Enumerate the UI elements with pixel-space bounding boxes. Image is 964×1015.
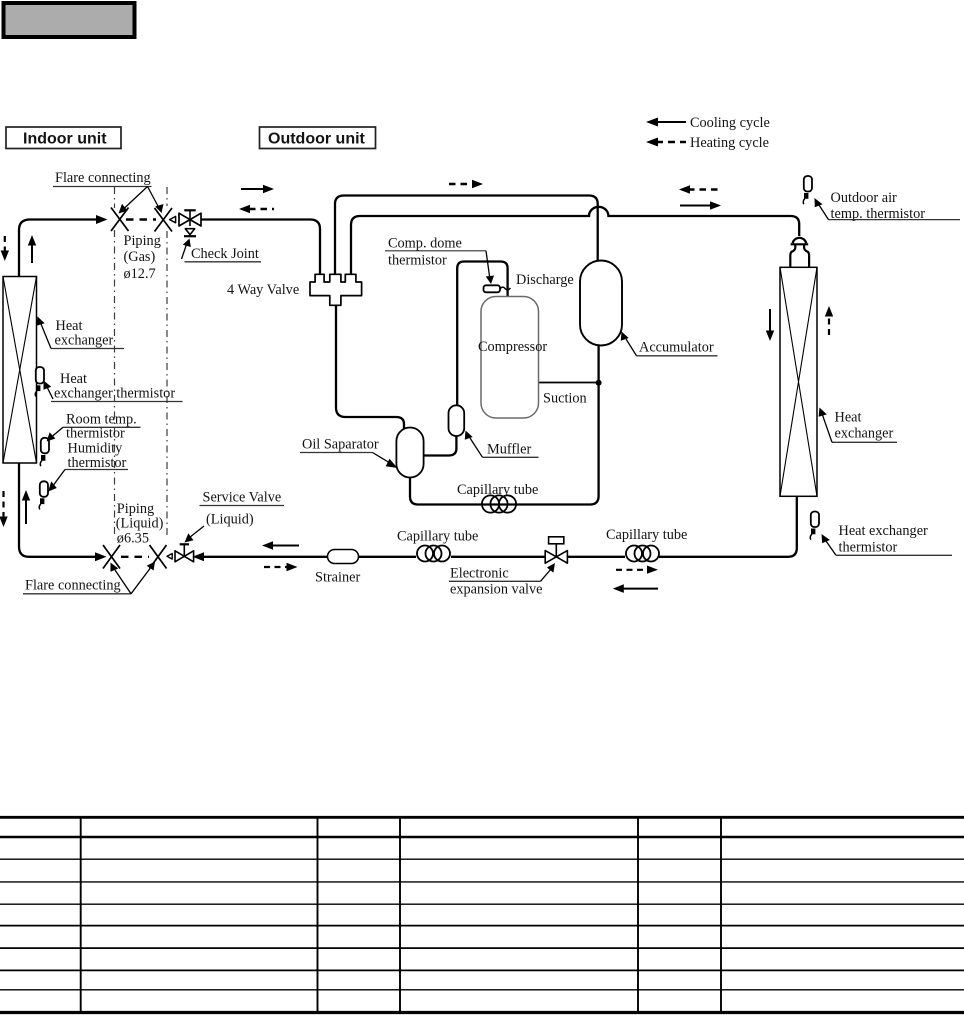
- label: Heat exchanger (indoor): [37, 317, 125, 349]
- TABLE: [0, 816, 964, 1013]
- flare connection X liquid 2: [150, 545, 167, 569]
- svg-text:4 Way Valve: 4 Way Valve: [227, 282, 299, 298]
- thermistor icon: indoor HX: [35, 367, 44, 397]
- service valve: [175, 544, 194, 562]
- label: Flare connecting (liquid): [23, 562, 155, 594]
- wire: liquid line service valve to strainer: [203, 556, 327, 558]
- svg-text:thermistor: thermistor: [839, 540, 898, 556]
- svg-text:(Liquid): (Liquid): [206, 512, 254, 528]
- thermistor icon: humidity: [39, 481, 48, 509]
- flow arrow: solid right, gas line left of 4-way: [241, 185, 274, 194]
- wire: 4-way valve port3 to line B to distributor, hump over crossing: [351, 207, 799, 275]
- svg-text:thermistor: thermistor: [66, 426, 125, 442]
- arrow into gas flare: [96, 215, 108, 224]
- label: Piping (Liquid) ø6.35: [116, 501, 164, 547]
- heat exchanger outdoor: [780, 267, 817, 496]
- wire: strainer to capillary2: [359, 556, 417, 558]
- label: Heat exchanger (outdoor): [819, 408, 897, 443]
- svg-text:Discharge: Discharge: [516, 272, 574, 288]
- label: Heat exchanger thermistor (indoor): [44, 371, 183, 402]
- label: Comp. dome thermistor: [385, 236, 494, 285]
- wire: suction line compressor to junction: [538, 382, 599, 384]
- svg-text:Suction: Suction: [543, 391, 587, 407]
- dashed pipe between gas flares: [126, 218, 156, 220]
- wire: 4-way valve port2 to line A to accumulator top: [335, 196, 598, 276]
- legend: heating cycle arrow: [646, 135, 769, 151]
- label: Service Valve: [185, 490, 285, 543]
- flow arrow: dashed up at outdoor HX right: [825, 306, 833, 335]
- strainer: [328, 550, 359, 564]
- svg-text:Strainer: Strainer: [315, 570, 360, 586]
- oil separator: [396, 428, 423, 478]
- label: Flare connecting (gas): [53, 170, 164, 214]
- svg-text:Comp. dome: Comp. dome: [388, 236, 462, 252]
- flow arrow: solid up at indoor HX bottom: [22, 490, 30, 524]
- small triangle port left of check joint: [170, 216, 176, 222]
- svg-text:Capillary tube: Capillary tube: [457, 482, 538, 498]
- svg-text:expansion valve: expansion valve: [450, 582, 543, 598]
- wire: accumulator bottom vertical: [597, 345, 599, 383]
- muffler: [449, 405, 465, 436]
- svg-text:Muffler: Muffler: [487, 442, 531, 458]
- svg-text:ø12.7: ø12.7: [124, 266, 156, 282]
- svg-text:exchanger: exchanger: [835, 426, 894, 442]
- compressor: [481, 297, 539, 419]
- label: Muffler: [465, 431, 539, 458]
- label: Piping (Gas) ø12.7: [124, 233, 161, 282]
- flow arrow: solid down at outdoor HX left: [766, 309, 774, 341]
- legend: cooling cycle arrow: [646, 115, 770, 131]
- flare connection X liquid 1: [103, 545, 120, 569]
- accumulator: [580, 261, 622, 346]
- capillary tube coil 2: [417, 546, 450, 562]
- svg-text:Flare connecting: Flare connecting: [25, 578, 121, 594]
- svg-text:Compressor: Compressor: [478, 339, 547, 355]
- svg-text:ø6.35: ø6.35: [117, 531, 149, 547]
- wire: capillary2 to EEV: [451, 556, 545, 558]
- svg-text:Electronic: Electronic: [450, 566, 509, 582]
- svg-text:Flare connecting: Flare connecting: [55, 170, 151, 186]
- flow arrow: dashed right above line A: [449, 180, 483, 189]
- capillary tube coil 1: [482, 495, 516, 512]
- header gray box: [4, 3, 135, 37]
- junction dot at accumulator/suction: [596, 380, 602, 386]
- svg-text:Heat: Heat: [835, 410, 862, 426]
- flow arrow: dashed down at indoor HX bottom: [0, 491, 8, 527]
- dash-dot field piping boundary lines: [115, 187, 168, 538]
- flow arrow: solid up at indoor HX top: [28, 235, 36, 263]
- flow arrow: dashed down at indoor HX top: [1, 236, 9, 261]
- distributor on outdoor HX top: [790, 238, 809, 267]
- svg-text:(Liquid): (Liquid): [116, 516, 164, 532]
- flow arrow: solid left on liquid line left: [262, 541, 299, 550]
- svg-text:Piping: Piping: [124, 233, 161, 249]
- svg-text:Outdoor air: Outdoor air: [831, 190, 898, 206]
- svg-text:Heating cycle: Heating cycle: [690, 135, 769, 151]
- svg-text:Check Joint: Check Joint: [191, 246, 259, 262]
- flow arrow: solid right above line B right side: [680, 201, 721, 210]
- label: Check Joint: [182, 239, 262, 263]
- label: Outdoor air temp. thermistor: [815, 190, 961, 222]
- svg-text:Indoor unit: Indoor unit: [23, 131, 107, 148]
- flow arrow: dashed left above line B right side: [679, 185, 719, 194]
- arrow into liquid flare: [95, 552, 107, 561]
- label: Oil Saparator: [300, 437, 398, 469]
- wire: indoor HX bottom pipe to liquid flare: [19, 463, 95, 557]
- svg-text:Capillary tube: Capillary tube: [397, 529, 478, 545]
- comp dome thermistor: [484, 285, 511, 292]
- svg-text:exchanger: exchanger: [55, 333, 114, 349]
- Outdoor unit label box: [260, 127, 376, 149]
- label: Accumulator: [621, 332, 718, 356]
- svg-text:Service Valve: Service Valve: [203, 490, 282, 506]
- flare connection X gas 2: [155, 208, 173, 232]
- svg-text:Accumulator: Accumulator: [639, 340, 714, 356]
- small triangle port left of service valve: [167, 554, 172, 560]
- Indoor unit label box: [6, 127, 121, 149]
- wire: gas line check joint to 4-way valve port1: [201, 220, 320, 276]
- svg-text:Heat exchanger: Heat exchanger: [839, 523, 929, 539]
- flow arrow: solid left on liquid line right: [613, 584, 658, 593]
- capillary tube coil 3: [626, 546, 659, 562]
- svg-text:Cooling cycle: Cooling cycle: [690, 115, 770, 131]
- wire: EEV to capillary3: [568, 556, 626, 558]
- svg-text:exchanger thermistor: exchanger thermistor: [54, 386, 175, 402]
- label: Heat exchanger thermistor (outdoor): [822, 523, 953, 556]
- label: Electronic expansion valve: [449, 563, 555, 598]
- electronic expansion valve: [545, 537, 567, 563]
- thermistor icon: room temp: [40, 438, 49, 466]
- flow arrow: dashed right on liquid line right: [616, 566, 658, 574]
- wire: muffler bottom to oil separator side: [424, 436, 456, 456]
- check joint valve: [179, 210, 201, 236]
- svg-text:thermistor: thermistor: [388, 253, 447, 269]
- thermistor icon: outdoor air temp: [803, 176, 812, 204]
- svg-text:Capillary tube: Capillary tube: [606, 527, 687, 543]
- label: Room temp. thermistor: [47, 412, 141, 442]
- wire: indoor HX top pipe to flare: [19, 220, 96, 278]
- PIPES: [19, 196, 799, 557]
- svg-text:Oil Saparator: Oil Saparator: [302, 437, 379, 453]
- dashed pipe between liquid flares: [121, 556, 149, 558]
- wire: 4-way valve bottom to oil separator top: [336, 305, 404, 429]
- arrow into service valve from right: [193, 552, 205, 561]
- wire: compressor discharge pipe to muffler: [457, 262, 507, 407]
- flow arrow: dashed left, gas line left of 4-way: [239, 205, 274, 214]
- flare connection X gas 1: [111, 208, 129, 232]
- heat exchanger indoor: [3, 277, 37, 464]
- label: Humidity thermistor: [48, 441, 128, 492]
- svg-text:(Gas): (Gas): [124, 249, 156, 265]
- flow arrow: dashed right on liquid line left: [264, 563, 298, 572]
- thermistor icon: outdoor HX: [810, 512, 819, 540]
- svg-text:Outdoor unit: Outdoor unit: [268, 131, 366, 148]
- svg-text:thermistor: thermistor: [68, 455, 127, 471]
- wire: oil separator bottom to capillary line to accumulator junction: [410, 383, 599, 505]
- 4 way valve body: [310, 274, 362, 305]
- wire: capillary3 to outdoor HX bottom pipe: [659, 496, 797, 557]
